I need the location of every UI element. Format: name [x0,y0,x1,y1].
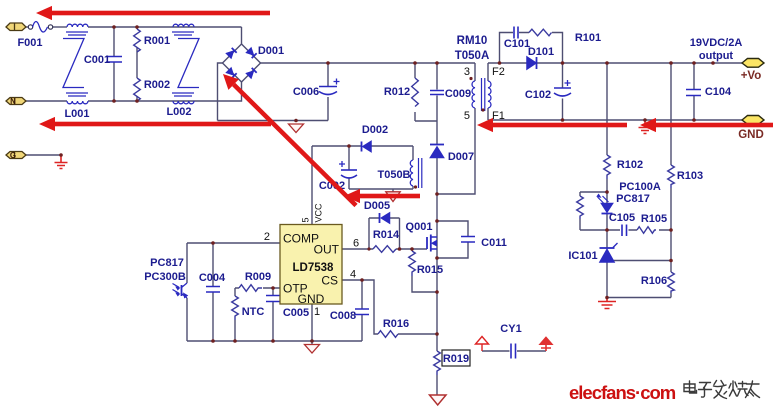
svg-text:C011: C011 [481,237,507,249]
svg-text:N: N [10,97,16,106]
svg-text:3: 3 [464,66,470,78]
svg-text:C102: C102 [525,89,551,101]
svg-text:L002: L002 [166,106,191,118]
svg-text:R012: R012 [384,86,410,98]
svg-text:C105: C105 [609,212,635,224]
svg-text:PC300B: PC300B [144,271,186,283]
svg-text:5: 5 [464,110,470,122]
svg-text:F001: F001 [17,37,42,49]
svg-text:R014: R014 [373,229,400,241]
svg-text:F2: F2 [492,66,505,78]
svg-text:R016: R016 [383,318,409,330]
svg-text:PC817: PC817 [616,193,650,205]
svg-text:D001: D001 [258,45,284,57]
svg-text:GND: GND [738,129,764,141]
svg-text:IC101: IC101 [568,250,597,262]
svg-text:C008: C008 [330,310,356,322]
svg-text:1: 1 [314,306,320,318]
svg-text:R106: R106 [641,275,667,287]
svg-text:D005: D005 [364,200,390,212]
svg-text:19VDC/2A: 19VDC/2A [690,37,743,49]
svg-text:C101: C101 [504,38,530,50]
svg-text:R001: R001 [144,35,170,47]
svg-text:4: 4 [350,269,356,281]
svg-text:C009: C009 [445,88,471,100]
svg-text:T050A: T050A [455,50,490,62]
svg-text:D002: D002 [362,124,388,136]
svg-text:C104: C104 [705,86,732,98]
svg-text:L001: L001 [64,108,89,120]
svg-text:LD7538: LD7538 [293,262,335,274]
svg-text:R009: R009 [245,271,271,283]
svg-text:T050B: T050B [377,169,410,181]
svg-text:R102: R102 [617,159,643,171]
svg-text:C004: C004 [199,272,226,284]
svg-text:R103: R103 [677,170,703,182]
svg-text:CY1: CY1 [500,323,521,335]
svg-text:G: G [10,151,16,160]
svg-text:R105: R105 [641,213,667,225]
svg-text:output: output [699,50,734,62]
svg-text:R015: R015 [417,264,443,276]
svg-text:OUT: OUT [314,243,340,257]
svg-text:C001: C001 [84,54,110,66]
svg-text:C005: C005 [283,307,309,319]
svg-text:F1: F1 [492,110,505,122]
svg-text:PC817: PC817 [150,257,184,269]
svg-text:RM10: RM10 [457,35,488,47]
svg-text:CS: CS [321,274,338,288]
svg-text:Q001: Q001 [406,221,433,233]
svg-text:6: 6 [353,238,359,250]
svg-text:R101: R101 [575,32,601,44]
svg-text:5: 5 [301,217,311,222]
svg-text:VCC: VCC [314,203,324,223]
svg-text:D101: D101 [528,46,554,58]
svg-text:C006: C006 [293,86,319,98]
svg-text:PC100A: PC100A [619,181,661,193]
svg-text:D007: D007 [448,151,474,163]
svg-text:+Vo: +Vo [741,70,762,82]
svg-text:NTC: NTC [242,306,265,318]
svg-text:2: 2 [264,231,270,243]
svg-text:R002: R002 [144,79,170,91]
svg-text:R019: R019 [443,353,469,365]
svg-text:GND: GND [298,292,325,306]
svg-text:elecfans·com: elecfans·com [569,382,676,403]
